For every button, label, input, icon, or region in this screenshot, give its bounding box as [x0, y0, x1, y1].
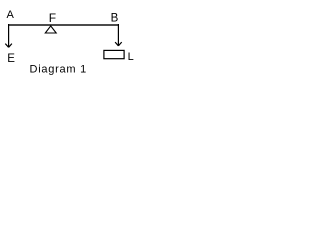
svg-text:Diagram 1: Diagram 1: [30, 64, 88, 76]
svg-text:A: A: [7, 9, 15, 21]
load box L: [104, 50, 124, 58]
fulcrum triangle under F: [45, 26, 56, 33]
svg-text:B: B: [111, 13, 119, 25]
svg-text:L: L: [128, 51, 134, 63]
effort arrow at A (downward): [5, 24, 12, 47]
svg-text:F: F: [49, 11, 56, 25]
background: [0, 0, 140, 93]
svg-text:E: E: [7, 53, 15, 65]
load arrow at B (downward): [115, 24, 122, 46]
beam (lever arm A-B): [8, 24, 119, 25]
